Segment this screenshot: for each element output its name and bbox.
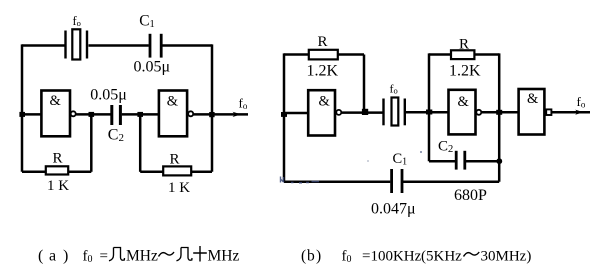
svg-text:f0: f0 — [342, 249, 352, 266]
svg-text:MHz: MHz — [126, 248, 158, 265]
svg-text:&: & — [319, 94, 331, 110]
svg-text:=100KHz: =100KHz — [362, 249, 422, 265]
svg-text:&: & — [50, 93, 62, 109]
svg-text:C1: C1 — [393, 151, 408, 168]
svg-text:680P: 680P — [454, 187, 487, 204]
svg-text:C2: C2 — [438, 139, 453, 156]
svg-text:fo: fo — [73, 14, 81, 28]
svg-text:R: R — [170, 152, 180, 168]
svg-text:&: & — [167, 94, 179, 110]
svg-text:1.2K: 1.2K — [307, 63, 339, 80]
svg-text:MHz: MHz — [208, 248, 240, 265]
svg-text:1.2K: 1.2K — [449, 62, 481, 79]
svg-text:&: & — [458, 94, 470, 110]
svg-text:0.05μ: 0.05μ — [134, 58, 171, 75]
svg-text:(: ( — [38, 248, 43, 265]
svg-text:R: R — [318, 34, 328, 50]
svg-text:fo: fo — [390, 82, 398, 96]
svg-text:fo: fo — [239, 96, 248, 112]
svg-text:0.047μ: 0.047μ — [371, 201, 416, 218]
svg-text:a: a — [49, 248, 56, 265]
svg-text:0.05μ: 0.05μ — [90, 87, 127, 104]
svg-text:R: R — [53, 151, 63, 167]
svg-text:(5KHz: (5KHz — [421, 249, 462, 265]
svg-text:C1: C1 — [139, 13, 155, 31]
svg-text:): ) — [63, 248, 68, 265]
svg-text:1 K: 1 K — [168, 180, 190, 196]
svg-text:): ) — [316, 248, 321, 265]
svg-text:b: b — [307, 248, 315, 265]
svg-text:R: R — [459, 36, 469, 52]
svg-text:1 K: 1 K — [47, 178, 69, 194]
svg-text:30MHz): 30MHz) — [481, 249, 532, 265]
svg-text:fo: fo — [577, 94, 586, 110]
svg-text:C2: C2 — [108, 126, 124, 144]
svg-text:&: & — [527, 91, 539, 107]
svg-text:=: = — [100, 249, 108, 265]
svg-text:f0: f0 — [83, 249, 93, 266]
svg-text:(: ( — [301, 248, 306, 265]
